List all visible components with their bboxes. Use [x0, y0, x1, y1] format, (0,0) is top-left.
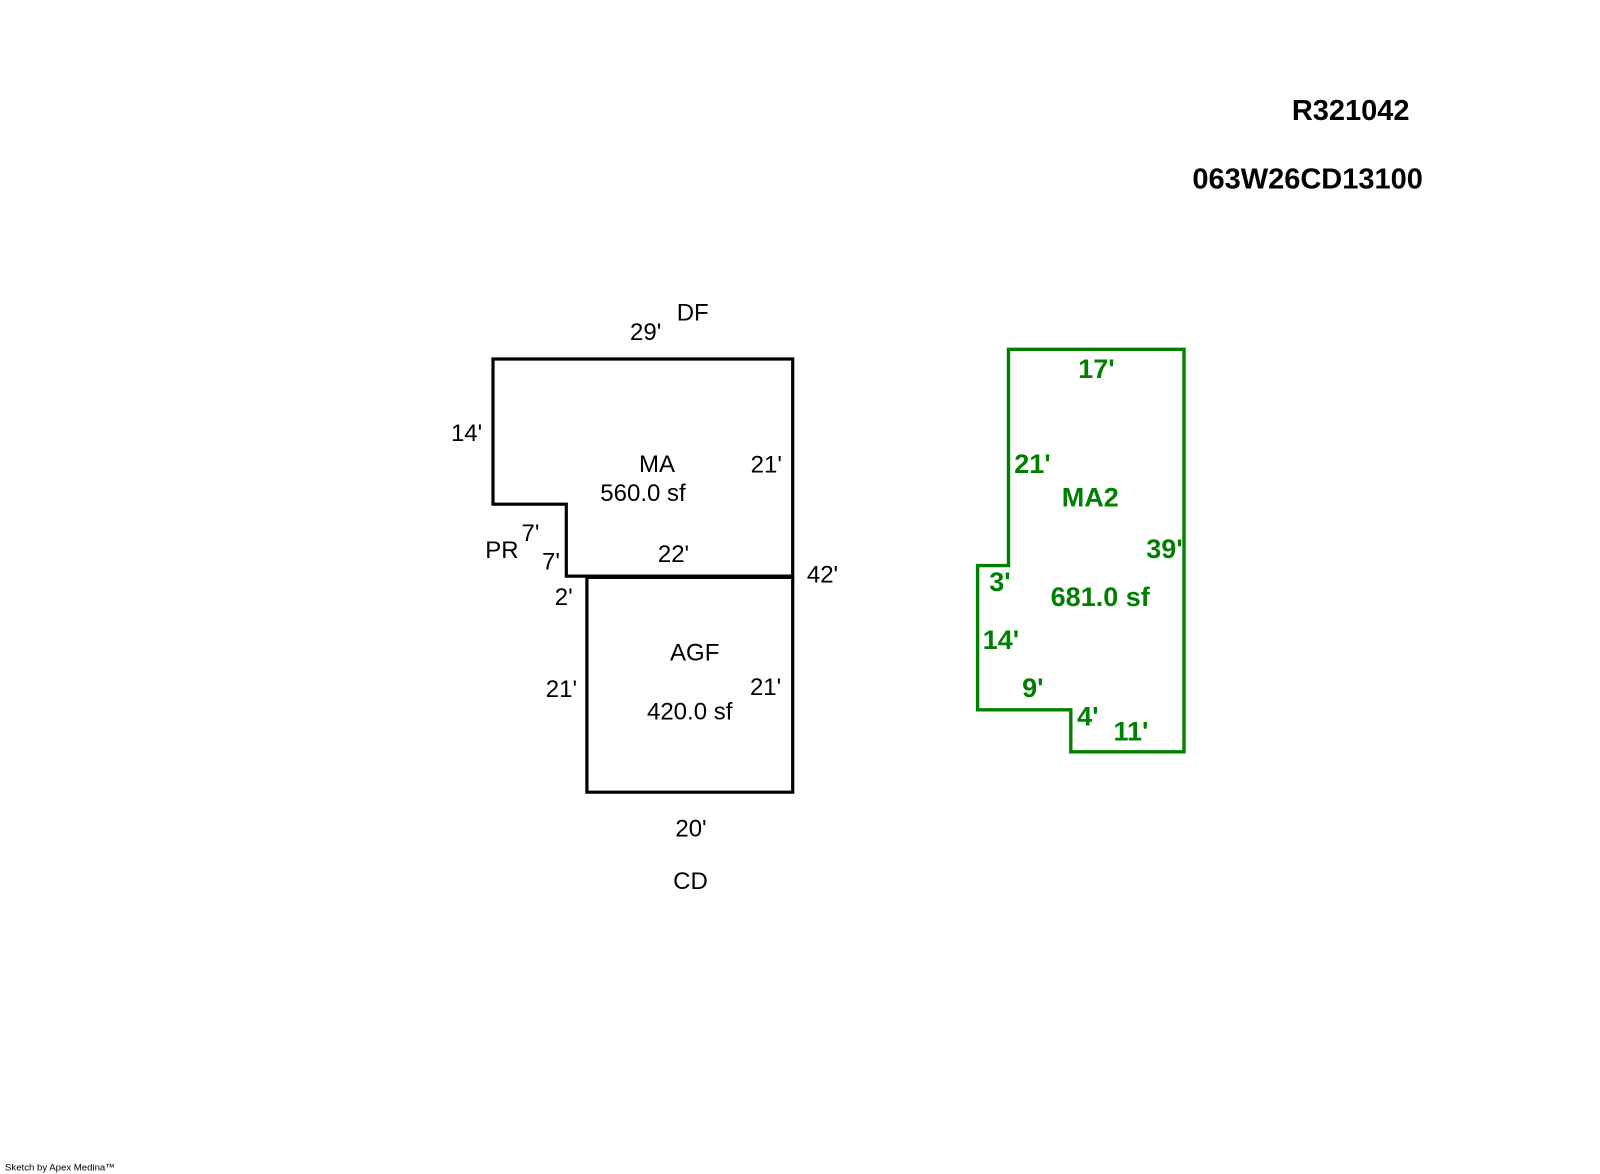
svg-text:560.0 sf: 560.0 sf [600, 480, 686, 507]
svg-text:MA: MA [639, 451, 675, 478]
svg-text:063W26CD13100: 063W26CD13100 [1192, 164, 1423, 196]
svg-text:Sketch by Apex Medina™: Sketch by Apex Medina™ [5, 1163, 115, 1174]
svg-text:3': 3' [989, 567, 1010, 597]
svg-text:681.0 sf: 681.0 sf [1051, 582, 1151, 612]
AGF building outline (black rectangle below MA) [587, 577, 793, 792]
svg-text:9': 9' [1022, 673, 1043, 703]
svg-text:7': 7' [522, 520, 540, 547]
svg-text:17': 17' [1078, 354, 1114, 384]
svg-text:2': 2' [555, 584, 573, 611]
svg-text:42': 42' [807, 562, 838, 589]
svg-text:7': 7' [542, 548, 560, 575]
svg-text:MA2: MA2 [1062, 483, 1119, 513]
svg-text:AGF: AGF [670, 640, 719, 667]
svg-text:PR: PR [485, 537, 518, 564]
svg-text:CD: CD [673, 868, 708, 895]
svg-text:14': 14' [451, 420, 482, 447]
svg-text:4': 4' [1077, 701, 1098, 731]
svg-text:14': 14' [983, 625, 1019, 655]
svg-text:DF: DF [677, 300, 709, 327]
svg-text:21': 21' [546, 676, 577, 703]
MA building outline (left, black, with PR notch) [493, 359, 793, 576]
svg-text:29': 29' [630, 319, 661, 346]
svg-text:420.0 sf: 420.0 sf [647, 699, 733, 726]
svg-text:22': 22' [658, 541, 689, 568]
svg-text:21': 21' [750, 674, 781, 701]
svg-text:11': 11' [1114, 716, 1149, 746]
svg-text:21': 21' [1014, 449, 1050, 479]
MA2 building outline (right, green polygon) [978, 349, 1184, 752]
svg-text:39': 39' [1146, 534, 1182, 564]
svg-text:R321042: R321042 [1292, 95, 1410, 127]
svg-text:21': 21' [751, 451, 782, 478]
svg-text:20': 20' [675, 816, 706, 843]
